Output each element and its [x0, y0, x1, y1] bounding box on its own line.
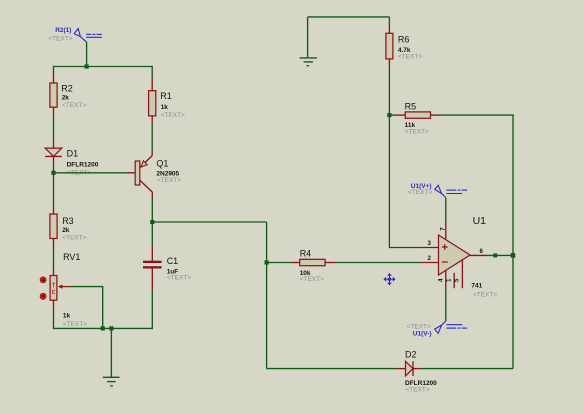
wire power drop [86, 42, 88, 66]
svg-text:D2: D2 [405, 350, 417, 360]
svg-text:5: 5 [454, 278, 461, 282]
wire C1 top [151, 222, 153, 246]
wire pin7 power [445, 198, 447, 222]
svg-text:6: 6 [480, 248, 484, 255]
svg-text:U1(V-): U1(V-) [413, 330, 432, 337]
svg-text:<TEXT>: <TEXT> [161, 112, 185, 119]
svg-text:<TEXT>: <TEXT> [62, 102, 86, 109]
wire left rail upper [53, 66, 55, 74]
svg-text:R2(1): R2(1) [55, 27, 71, 34]
svg-text:<TEXT>: <TEXT> [408, 189, 432, 196]
node ground junction [109, 326, 113, 330]
resistor R1 [149, 77, 186, 124]
svg-text:R6: R6 [398, 35, 410, 45]
svg-text:<TEXT>: <TEXT> [300, 276, 324, 283]
RV1 wiper arrow [58, 285, 71, 289]
wire base horizontal [54, 172, 130, 174]
svg-text:<TEXT>: <TEXT> [473, 292, 497, 299]
diode D1 [45, 139, 99, 177]
svg-text:2k: 2k [62, 94, 70, 101]
svg-text:R1: R1 [160, 91, 172, 101]
svg-text:D1: D1 [67, 148, 79, 158]
svg-text:<TEXT>: <TEXT> [157, 177, 181, 184]
wire RV1 bottom to rail [54, 311, 153, 329]
svg-text:<TEXT>: <TEXT> [405, 129, 429, 136]
svg-text:1k: 1k [161, 104, 169, 111]
resistor R5 [389, 101, 440, 135]
svg-text:3: 3 [428, 240, 432, 247]
svg-text:Q1: Q1 [156, 158, 168, 168]
ground top right [300, 58, 317, 66]
resistor R4 [291, 249, 335, 284]
svg-text:<TEXT>: <TEXT> [167, 275, 191, 282]
wire top rail right [308, 16, 390, 18]
wire R4 to pin2 [335, 262, 420, 264]
power terminal U1(V+) [435, 185, 468, 197]
svg-text:1k: 1k [63, 312, 71, 319]
power terminal R2(1) top-left [74, 29, 102, 43]
node wiper junction [101, 326, 105, 330]
svg-text:741: 741 [471, 283, 482, 290]
wire R3 to RV1 [53, 248, 55, 267]
svg-text:<TEXT>: <TEXT> [63, 321, 87, 328]
capacitor C1 [143, 246, 191, 290]
wire R6 top [388, 17, 390, 26]
node output mid [493, 253, 497, 257]
svg-text:2k: 2k [62, 227, 70, 234]
origin marker crosshair [384, 274, 395, 285]
wire feedback riser left [266, 263, 268, 369]
wire ground drop top right [307, 17, 309, 57]
node base junction [51, 171, 55, 175]
power terminal U1(V-) [435, 321, 468, 333]
svg-text:C1: C1 [167, 256, 179, 266]
node R5 junction [387, 113, 391, 117]
resistor R3 [50, 206, 87, 248]
wire collector down [151, 198, 153, 223]
svg-text:4: 4 [438, 278, 445, 282]
potentiometer RV1 [50, 252, 87, 328]
wire R1 top [151, 66, 153, 77]
svg-text:DFLR1200: DFLR1200 [67, 162, 99, 169]
svg-text:7: 7 [440, 227, 447, 231]
wire collector to right [152, 221, 266, 223]
svg-text:R2: R2 [61, 84, 73, 94]
op-amp U1 [421, 215, 498, 298]
wire top rail [54, 66, 153, 68]
node collector junction [150, 220, 154, 224]
wire node to R3 [53, 173, 55, 206]
wire ground stem left [110, 328, 112, 377]
svg-text:R5: R5 [405, 101, 417, 111]
wire D2 row right [421, 368, 513, 370]
svg-text:RV1: RV1 [63, 252, 80, 262]
wire wiper to down [71, 287, 103, 329]
node R4 junction [265, 260, 269, 264]
svg-text:<TEXT>: <TEXT> [48, 36, 72, 43]
resistor R6 [386, 26, 422, 69]
wire R1 to Q1 emitter [151, 124, 153, 151]
ground left [103, 377, 120, 386]
svg-text:<TEXT>: <TEXT> [406, 387, 430, 394]
wire D2 row left [267, 368, 397, 370]
wire to R4 [267, 262, 292, 264]
svg-text:R4: R4 [300, 249, 312, 259]
transistor Q1 [128, 151, 181, 198]
wire C1 bottom [151, 290, 153, 329]
svg-text:1: 1 [446, 278, 453, 282]
svg-text:2: 2 [428, 255, 432, 262]
node output riser [511, 253, 516, 258]
wire right riser [512, 115, 514, 369]
RV1 up button [40, 277, 46, 283]
wire pin3 riser [389, 115, 420, 247]
diode D2 [397, 350, 438, 394]
node junction top rail [85, 64, 89, 68]
svg-text:<TEXT>: <TEXT> [62, 234, 86, 241]
wire R6 to R5 node [388, 68, 390, 115]
wire R5 to right riser [440, 114, 514, 116]
wire D1 to node [53, 165, 55, 173]
RV1 down button [40, 293, 46, 299]
wire pin4 power [445, 288, 447, 321]
wire collector net down to R4 [266, 222, 268, 264]
svg-text:U1: U1 [473, 215, 487, 227]
resistor R2 [50, 74, 87, 115]
wire R2 to D1 [53, 115, 55, 139]
svg-text:R3: R3 [62, 216, 74, 226]
wire output [488, 254, 513, 256]
svg-text:<TEXT>: <TEXT> [398, 53, 422, 60]
